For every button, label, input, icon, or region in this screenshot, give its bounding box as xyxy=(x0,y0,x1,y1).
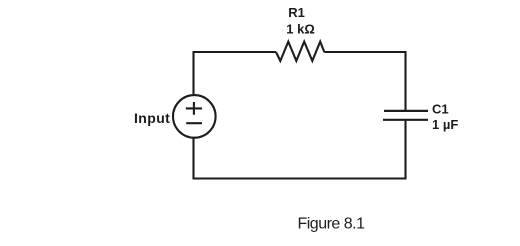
wire right lower (capacitor bottom plate to bottom wire) xyxy=(404,121,406,179)
svg-text:1 µF: 1 µF xyxy=(432,117,458,132)
svg-text:Figure 8.1: Figure 8.1 xyxy=(297,215,365,232)
voltage source V1 (Input) xyxy=(173,95,216,138)
wire left lower (source bottom to bottom wire) xyxy=(192,137,194,179)
wire left upper (top wire to source top) xyxy=(192,51,194,96)
svg-text:Input: Input xyxy=(134,110,170,126)
capacitor C1 xyxy=(383,111,428,120)
svg-text:R1: R1 xyxy=(288,5,305,20)
resistor R1 xyxy=(276,42,324,61)
C1 top plate xyxy=(384,110,428,112)
wire right upper (to capacitor top plate) xyxy=(404,51,406,110)
C1 bottom plate xyxy=(383,119,428,121)
minus terminal mark xyxy=(186,122,202,124)
wire bottom segment xyxy=(193,177,407,179)
source circle xyxy=(173,95,216,138)
svg-text:1 kΩ: 1 kΩ xyxy=(286,21,315,36)
wire top-right segment xyxy=(324,51,405,53)
svg-text:C1: C1 xyxy=(432,101,449,116)
wire top-left segment xyxy=(194,51,277,53)
plus terminal mark xyxy=(186,102,202,115)
